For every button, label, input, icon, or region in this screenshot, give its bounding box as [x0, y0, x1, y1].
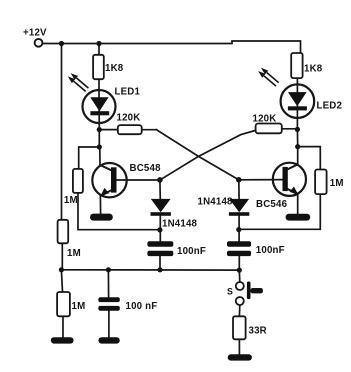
node dot bus / bottom 100nF: [106, 267, 111, 272]
wire bottom 100nF to ground: [108, 311, 110, 337]
node dot top bus / line A: [59, 41, 64, 46]
ground bottom 1M: [51, 337, 74, 343]
wire left 120K to LED1 node: [99, 129, 118, 131]
wire left 1N4148 to left 100nF: [159, 215, 161, 241]
wire collector node to 1M (line B): [79, 147, 100, 169]
svg-text:BC548: BC548: [130, 163, 162, 174]
svg-text:120K: 120K: [117, 113, 141, 124]
LED LED1 triangle: [90, 97, 108, 111]
svg-text:1N4148: 1N4148: [198, 196, 234, 207]
wire LED1 anode through circle: [98, 90, 100, 129]
svg-text:1M: 1M: [67, 248, 81, 259]
wire right 1K8 to LED2: [296, 78, 298, 85]
svg-text:BC546: BC546: [256, 199, 288, 210]
node dot BC546 base: [236, 177, 242, 183]
wire 1M line B bottom to left diode node: [78, 193, 160, 230]
LED LED2 light arrows: [258, 68, 279, 86]
node dot bus / left branch: [157, 267, 162, 272]
resistor 1K8 right: [291, 53, 302, 78]
wire BC548 base lead: [117, 179, 160, 181]
wire LED1 cathode to collector node: [98, 130, 100, 147]
node dot LED1 / 120K: [97, 127, 102, 132]
wire right 1N4148 to right 100nF: [238, 215, 240, 241]
LED LED2: [281, 84, 315, 118]
svg-text:1N4148: 1N4148: [162, 219, 198, 230]
LED LED1: [83, 90, 116, 123]
svg-text:LED1: LED1: [115, 87, 141, 98]
ground 33R: [228, 354, 252, 360]
resistor 120K right: [256, 124, 282, 134]
LED LED1 cathode bar: [90, 111, 109, 115]
svg-text:1K8: 1K8: [304, 64, 323, 75]
ground BC546 emitter: [286, 214, 311, 221]
svg-text:33R: 33R: [249, 326, 267, 337]
wire left 100nF to bottom bus: [159, 256, 161, 270]
wire BC548 emitter to ground: [99, 197, 101, 214]
node dot bus / switch branch: [237, 268, 242, 273]
switch S terminal bottom: [236, 297, 244, 305]
node dot left diode / 1M line B: [157, 227, 162, 232]
wire BC546 emitter to ground: [297, 194, 299, 214]
transistor Q1 BC548: [92, 163, 126, 197]
wire right 1M bottom to right diode node: [239, 194, 320, 229]
wire LED2 anode through circle: [296, 85, 298, 130]
wire left rail (line A) bottom section: [61, 243, 63, 269]
capacitor 100nF right: [227, 241, 251, 256]
wire bottom bus: [61, 269, 239, 271]
svg-text:1M: 1M: [72, 301, 86, 312]
ground bottom 100nF: [98, 337, 119, 343]
svg-text:S: S: [227, 287, 233, 297]
terminal +12V: [35, 39, 43, 47]
wire switch S to 33R: [238, 305, 240, 316]
switch S terminal top: [236, 282, 244, 290]
wire BC546 base lead: [239, 179, 283, 181]
switch S pushbutton actuator: [247, 282, 263, 300]
LED LED2 cathode bar: [288, 106, 307, 110]
wire BC548 base node to left 1N4148: [159, 180, 161, 200]
resistor 1M line B: [73, 169, 83, 193]
wire LED2 cathode to BC546 collector node: [296, 129, 298, 146]
svg-text:1K8: 1K8: [105, 63, 124, 74]
ground BC548 emitter: [90, 214, 113, 221]
resistor 1M bottom: [57, 292, 70, 316]
resistor 33R: [233, 316, 246, 339]
wire bus to bottom 100nF: [107, 270, 109, 297]
diode 1N4148 left: [151, 199, 171, 216]
LED LED1 light arrows: [68, 73, 89, 91]
svg-text:100 nF: 100 nF: [126, 301, 158, 312]
diode 1N4148 right: [229, 199, 249, 216]
capacitor 100nF left: [147, 241, 173, 256]
wire right 120K to LED2 node: [282, 128, 298, 130]
LED LED2 triangle: [288, 92, 307, 106]
svg-text:+12V: +12V: [23, 27, 47, 38]
wire top supply bus: [43, 41, 301, 53]
wire BC546 collector drop: [297, 147, 299, 165]
resistor 1M right: [315, 170, 327, 195]
wire cross-coupling left 120K to BC546 base: [157, 130, 239, 180]
wire 1K8 left to LED1: [98, 79, 100, 90]
transistor Q2 BC546: [273, 163, 306, 196]
wire left rail (line A) top section: [61, 44, 63, 220]
svg-text:1M: 1M: [64, 195, 78, 206]
wire cross-coupling right 120K to BC548 base: [160, 130, 256, 180]
wire right 100nF to bus end: [238, 256, 240, 270]
resistor 1M line A: [58, 220, 69, 244]
node dot LED2 / 120K right: [295, 127, 300, 132]
svg-text:120K: 120K: [253, 114, 277, 125]
wire bus to bottom 1M: [61, 270, 62, 292]
wire BC546 base node to right 1N4148: [238, 180, 240, 200]
node dot BC548 base: [157, 177, 163, 183]
wire +12V to 1K8 left drop: [98, 44, 100, 55]
wire bottom 1M to ground: [62, 316, 64, 337]
resistor 1K8 left: [93, 55, 104, 79]
svg-text:1M: 1M: [330, 178, 344, 189]
wire collector node to right 1M: [298, 147, 321, 170]
node dot top bus / 1K8 left: [96, 41, 101, 46]
resistor 120K left: [118, 125, 142, 134]
svg-text:100nF: 100nF: [256, 245, 285, 256]
wire 33R to ground: [238, 339, 240, 354]
node dot bus / line A: [59, 267, 64, 272]
node dot right diode / 1M right: [236, 227, 241, 232]
wire collector node to BC548 collector: [99, 147, 101, 166]
wire left 120K right lead: [142, 129, 157, 131]
node dot BC548 collector branch: [97, 144, 102, 149]
wire bus end to switch S: [238, 270, 241, 282]
svg-text:LED2: LED2: [317, 101, 343, 112]
node dot BC546 collector branch: [295, 144, 300, 149]
capacitor 100nF bottom: [98, 297, 119, 311]
svg-text:100nF: 100nF: [177, 246, 206, 257]
